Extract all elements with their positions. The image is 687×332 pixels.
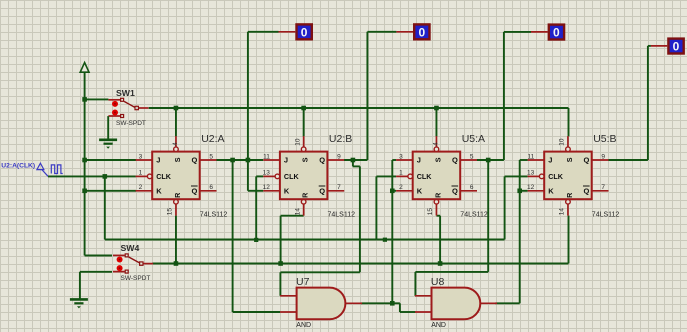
U2:A Qbar pin stub — [200, 190, 217, 192]
wire Q1 down to U7 input A (jogged) — [280, 160, 360, 296]
U5:B pin numbers — [527, 138, 605, 215]
logic probe 3 pin stub — [531, 31, 548, 33]
U2:A R pin stub with bubble — [174, 200, 179, 216]
svg-text:2: 2 — [399, 184, 403, 191]
label U5:A — [462, 133, 485, 145]
U2:A S pin stub with bubble — [174, 136, 179, 151]
svg-text:1: 1 — [139, 170, 143, 177]
label U8 — [431, 276, 445, 288]
U2:B Qbar pin stub — [327, 190, 344, 192]
ground symbol below SW4 — [70, 299, 88, 308]
logic probe 4 pin stub — [651, 45, 667, 47]
label AND of U8 — [431, 322, 446, 329]
wire RESET riser to U2:A R — [175, 216, 177, 264]
svg-text:Q: Q — [192, 156, 198, 165]
wire VCC to SW4 top throw — [85, 255, 112, 257]
U5:A Qbar pin stub — [460, 190, 477, 192]
svg-text:74LS112: 74LS112 — [200, 212, 228, 219]
wire CLK riser to U5:B — [505, 176, 528, 239]
svg-text:CLK: CLK — [284, 172, 300, 181]
wire Q0 up to probe 1 and down to U2:B K — [248, 32, 279, 191]
svg-text:Q: Q — [452, 187, 458, 196]
svg-text:0: 0 — [553, 26, 560, 40]
wire U7 output to U5:A J/K riser — [361, 302, 393, 304]
svg-text:S: S — [433, 157, 442, 162]
junction RESET/U2:A — [174, 261, 179, 266]
U5:A S pin stub with bubble — [434, 136, 439, 151]
junction SET/U2:A — [174, 106, 179, 111]
U2:A J pin stub — [136, 159, 153, 161]
junction Q0/AND-branch — [230, 158, 235, 163]
svg-text:R: R — [301, 192, 310, 198]
AND gate U7 body — [297, 288, 346, 320]
svg-text:7: 7 — [337, 184, 341, 191]
U7 output pin stub — [345, 302, 362, 304]
svg-text:U7: U7 — [296, 276, 310, 288]
svg-text:14: 14 — [559, 208, 566, 216]
junction CLK rail/U2:B riser — [254, 238, 258, 242]
svg-text:Q: Q — [192, 187, 198, 196]
junction Q2/U8 branch — [486, 158, 491, 163]
U5:B J pin stub — [528, 159, 545, 161]
clock generator waveform symbol — [51, 165, 62, 174]
label U2:B — [329, 133, 352, 145]
flip-flop U5:A 74LS112 body — [413, 152, 461, 200]
U5:B Q pin stub — [592, 159, 609, 161]
logic probe 4 displaying 0 — [667, 37, 685, 54]
junction Q0/probe branch — [246, 158, 251, 163]
U5:A R pin stub with bubble — [434, 200, 439, 216]
U5:B CLK pin stub with bubble — [528, 174, 544, 179]
svg-text:12: 12 — [527, 184, 535, 191]
svg-text:CLK: CLK — [548, 172, 564, 181]
svg-text:6: 6 — [470, 184, 474, 191]
U2:B S pin stub with bubble — [301, 136, 306, 151]
svg-text:Q: Q — [452, 156, 458, 165]
wire SET drop to U5:B S — [568, 108, 570, 136]
svg-text:U8: U8 — [431, 276, 445, 288]
wire CLK branch down x=104.8 — [104, 176, 106, 239]
U5:B Qbar pin stub — [592, 190, 609, 192]
svg-text:74LS112: 74LS112 — [592, 212, 620, 219]
ground symbol below SW1 — [99, 140, 117, 149]
junction VCC/SW1 — [82, 97, 87, 102]
switch SW1 SW-SPDT — [108, 98, 148, 117]
label 74LS112 of U2:B — [328, 212, 356, 219]
junction U7out/U5:A K — [390, 189, 395, 194]
svg-text:0: 0 — [418, 26, 425, 40]
svg-text:3: 3 — [139, 153, 143, 160]
wire SET rail y=108 from SW1 common — [149, 107, 569, 109]
U2:A CLK pin stub with bubble — [136, 174, 152, 179]
svg-text:J: J — [417, 156, 421, 165]
junction VCC/J — [82, 158, 87, 163]
junction U7out — [390, 301, 395, 306]
svg-text:SW4: SW4 — [121, 243, 140, 253]
U5:B K pin stub — [528, 190, 545, 192]
U2:A K pin stub — [136, 190, 153, 192]
wire U7out to U8 input B (jog) — [392, 303, 415, 312]
wire Q3 from U5:B Q up to probe 4 — [609, 46, 651, 160]
U2:B CLK pin stub with bubble — [263, 174, 279, 179]
label SW-SPDT of SW4 — [121, 275, 151, 282]
label U7 — [296, 276, 310, 288]
label SW-SPDT of SW1 — [116, 120, 146, 127]
U5:A pin numbers — [399, 142, 474, 215]
svg-text:74LS112: 74LS112 — [328, 212, 356, 219]
svg-text:10: 10 — [294, 138, 301, 146]
svg-text:0: 0 — [673, 40, 680, 54]
wire U7out riser x=392.3 — [392, 160, 396, 303]
wire VCC vertical rail x=84.6 (power arrow to SW4) — [84, 72, 86, 255]
U2:B pin numbers — [263, 138, 341, 215]
U5:A CLK pin stub with bubble — [396, 174, 412, 179]
wire CLK riser to U5:A — [376, 176, 396, 239]
svg-text:11: 11 — [527, 153, 534, 160]
label AND of U7 — [296, 322, 311, 329]
svg-text:2: 2 — [139, 184, 143, 191]
wire CLK riser to U2:B — [256, 176, 263, 239]
svg-text:11: 11 — [263, 153, 270, 160]
U2:B internal pin labels — [284, 156, 325, 198]
svg-text:U2:B: U2:B — [329, 133, 352, 145]
svg-text:U2:A: U2:A — [201, 133, 224, 145]
junction VCC/K — [82, 189, 87, 194]
U5:B S pin stub with bubble — [566, 136, 571, 151]
wire Q2 from U5:A Q — [477, 159, 504, 161]
junction SET/U2:B — [301, 106, 306, 111]
wire RESET riser to U2:B R (jog) — [281, 216, 304, 264]
svg-text:S: S — [565, 157, 574, 162]
svg-text:5: 5 — [209, 153, 213, 160]
svg-text:9: 9 — [337, 153, 341, 160]
label U5:B — [593, 133, 616, 145]
svg-text:10: 10 — [559, 138, 566, 146]
flip-flop U2:A 74LS112 body — [152, 152, 200, 200]
wire VCC to U2:A J — [85, 159, 136, 161]
power terminal VCC arrow — [80, 63, 89, 73]
wire U8out to U5:B K — [520, 190, 528, 192]
svg-text:K: K — [548, 187, 554, 196]
svg-text:AND: AND — [431, 322, 446, 329]
label 74LS112 of U5:A — [460, 212, 488, 219]
U2:B R pin stub with bubble — [301, 200, 306, 216]
svg-text:K: K — [417, 187, 423, 196]
wire SET drop to U2:A S — [175, 108, 177, 136]
svg-text:CLK: CLK — [417, 172, 433, 181]
U5:B internal pin labels — [548, 156, 589, 198]
wire Q1 up to probe 2 — [367, 32, 396, 160]
svg-text:Q: Q — [584, 156, 590, 165]
wire SW1 bottom throw to ground — [107, 116, 109, 140]
wire U8 output to U5:B J/K riser — [495, 160, 527, 303]
svg-text:14: 14 — [294, 208, 301, 216]
U2:B Q pin stub — [327, 159, 344, 161]
svg-text:SW-SPDT: SW-SPDT — [116, 120, 146, 127]
svg-text:7: 7 — [601, 184, 605, 191]
logic probe 1 pin stub — [279, 31, 296, 33]
svg-text:1: 1 — [399, 170, 403, 177]
wire VCC to U2:A K — [85, 190, 136, 192]
U2:A Q pin stub — [200, 159, 217, 161]
junction SET/U5:A — [434, 106, 439, 111]
wire RESET riser to U5:A R (jog) — [436, 216, 440, 264]
junction CLK branch — [103, 174, 108, 179]
svg-text:J: J — [156, 156, 160, 165]
svg-text:Q: Q — [319, 156, 325, 165]
svg-text:Q: Q — [584, 187, 590, 196]
svg-text:4: 4 — [172, 142, 179, 146]
wire Q2 down to U8 input A — [415, 160, 488, 296]
label U2:A — [201, 133, 224, 145]
svg-text:R: R — [433, 192, 442, 198]
svg-text:9: 9 — [601, 153, 605, 160]
U5:A K pin stub — [396, 190, 413, 192]
U2:B K pin stub — [263, 190, 280, 192]
logic probe 2 pin stub — [396, 31, 413, 33]
svg-text:Q: Q — [319, 187, 325, 196]
svg-text:3: 3 — [399, 153, 403, 160]
svg-text:74LS112: 74LS112 — [460, 212, 488, 219]
svg-text:U5:A: U5:A — [462, 133, 485, 145]
flip-flop U2:B 74LS112 body — [280, 152, 328, 200]
wire CLK from generator to U2:A CLK pin — [48, 175, 136, 177]
svg-text:SW-SPDT: SW-SPDT — [121, 275, 151, 282]
label 74LS112 of U2:A — [200, 212, 228, 219]
junction on CLK rail x=384.9 — [383, 238, 387, 242]
U8 input pin stubs — [415, 296, 432, 312]
svg-text:4: 4 — [432, 142, 439, 146]
svg-text:13: 13 — [527, 170, 535, 177]
wire VCC to SW1 top throw — [85, 98, 109, 100]
U2:A internal pin labels — [156, 156, 197, 198]
U5:A J pin stub — [396, 159, 413, 161]
svg-text:J: J — [548, 156, 552, 165]
label SW1 — [116, 88, 135, 98]
wire SET drop to U2:B S — [303, 108, 305, 136]
wire Q0 from U2:A Q to U2:B J — [216, 159, 263, 161]
U2:A pin numbers — [139, 142, 214, 215]
label 74LS112 of U5:B — [592, 212, 620, 219]
AND gate U8 body — [432, 288, 481, 320]
svg-text:K: K — [284, 187, 290, 196]
wire Q0 down to U7 input B — [233, 160, 281, 312]
wire Q2 up to probe 3 — [504, 32, 531, 160]
junction Q1/U7 branch — [351, 158, 356, 163]
svg-text:J: J — [284, 156, 288, 165]
U5:A internal pin labels — [417, 156, 458, 198]
junction U8out/U5:B K — [517, 189, 522, 194]
U7 input pin stubs — [280, 296, 297, 312]
svg-text:R: R — [173, 192, 182, 198]
switch SW4 SW-SPDT — [113, 254, 153, 273]
wire RESET riser to U5:B R — [568, 216, 570, 264]
logic probe 2 displaying 0 — [413, 23, 431, 40]
svg-text:U2:A(CLK): U2:A(CLK) — [1, 162, 35, 169]
U2:B J pin stub — [263, 159, 280, 161]
wire Q1 from U2:B Q — [344, 159, 367, 161]
junction RESET/U2:B — [278, 261, 283, 266]
wire SW4 bottom throw to ground — [80, 272, 112, 300]
svg-text:15: 15 — [167, 208, 174, 216]
svg-text:R: R — [565, 192, 574, 198]
svg-text:5: 5 — [470, 153, 474, 160]
svg-text:K: K — [156, 187, 162, 196]
svg-text:AND: AND — [296, 322, 311, 329]
wire CLK bottom rail y=239.5 — [105, 239, 505, 241]
clock generator label U2:A(CLK) — [1, 162, 35, 169]
clock generator terminal triangle — [37, 163, 48, 176]
U8 output pin stub — [480, 302, 497, 304]
logic probe 1 displaying 0 — [295, 23, 313, 40]
svg-text:0: 0 — [301, 26, 308, 40]
logic probe 3 displaying 0 — [548, 23, 566, 40]
svg-text:S: S — [173, 157, 182, 162]
svg-text:SW1: SW1 — [116, 88, 135, 98]
wire RESET rail y=263.5 from SW4 common — [152, 263, 568, 265]
svg-text:CLK: CLK — [156, 172, 172, 181]
svg-text:15: 15 — [427, 208, 434, 216]
svg-text:12: 12 — [263, 184, 271, 191]
junction RESET/U5:A — [438, 261, 443, 266]
label SW4 — [121, 243, 140, 253]
svg-text:13: 13 — [263, 170, 271, 177]
U5:B R pin stub with bubble — [566, 200, 571, 216]
wire SET drop to U5:A S — [435, 108, 437, 136]
flip-flop U5:B 74LS112 body — [544, 152, 592, 200]
wire U7out to U5:A K — [392, 190, 396, 192]
svg-text:S: S — [301, 157, 310, 162]
svg-text:U5:B: U5:B — [593, 133, 616, 145]
svg-text:6: 6 — [209, 184, 213, 191]
U5:A Q pin stub — [460, 159, 477, 161]
